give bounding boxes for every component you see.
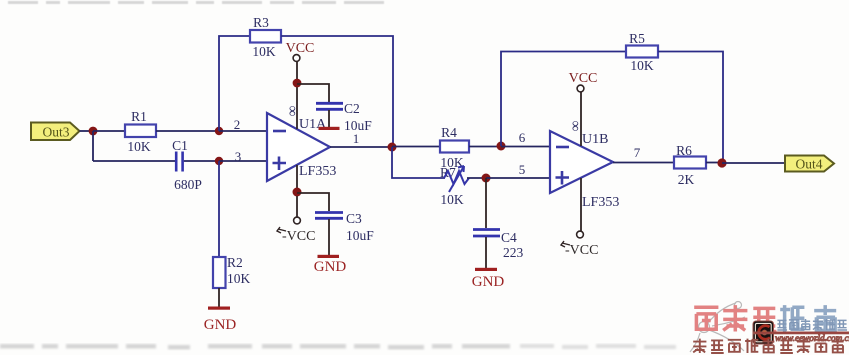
svg-text:3: 3 (235, 149, 242, 164)
potentiometer R7 (440, 165, 469, 207)
wire node G to Out4 (722, 162, 785, 164)
port Out3 (31, 123, 80, 141)
wire node F to pin 5 (486, 177, 550, 179)
svg-text:R4: R4 (441, 125, 457, 140)
port Out4 (785, 156, 834, 172)
watermark text dianzi gongcheng shijie (blue) (777, 319, 847, 330)
node E junction (497, 142, 506, 151)
svg-text:VCC: VCC (286, 41, 315, 56)
wire R4 to node E (469, 146, 501, 148)
node A junction (89, 127, 98, 136)
wire VCC node to C2 (297, 84, 329, 102)
node G junction (717, 158, 726, 167)
svg-text:680P: 680P (174, 177, 202, 192)
ground below R2 (204, 307, 237, 334)
power port VCC (U1B) (569, 71, 598, 92)
node V- junction (293, 188, 302, 197)
watermark logo eeworld (753, 321, 774, 344)
faint cropped text line bottom (0, 344, 676, 350)
svg-text:R6: R6 (676, 143, 692, 158)
svg-text:10K: 10K (252, 44, 276, 59)
wire V- node to -VCC circle (296, 196, 298, 217)
svg-text:10K: 10K (127, 139, 151, 154)
svg-text:GND: GND (204, 317, 237, 333)
svg-text:LF353: LF353 (299, 164, 336, 179)
wire node D down to pot row (392, 147, 445, 178)
power port -VCC (U1A) (277, 217, 315, 244)
svg-text:GND: GND (472, 274, 505, 290)
wire C2 to ground bar (328, 110, 330, 127)
capacitor C3 (315, 211, 374, 243)
wire C1 to node C (184, 160, 219, 162)
watermark big text pei xun (blue) (780, 305, 836, 331)
svg-text:GND: GND (314, 259, 347, 275)
ground bar below C2 (319, 127, 340, 130)
node VCC junction (293, 79, 302, 88)
resistor R6 (674, 143, 706, 187)
resistor R2 (213, 255, 251, 288)
wire U1A V- down (296, 165, 298, 192)
node F junction (482, 174, 491, 183)
wire node A to R1 (93, 130, 125, 132)
svg-text:R3: R3 (253, 15, 269, 30)
wire Out3 to node A (80, 130, 94, 132)
capacitor C2 (316, 101, 372, 133)
wire node F to C4 (485, 178, 487, 228)
wire R3 feedback riser (219, 36, 250, 131)
node D junction (U1A out) (388, 143, 397, 152)
resistor R3 (250, 15, 281, 59)
svg-text:U1B: U1B (582, 132, 608, 147)
svg-text:5: 5 (519, 162, 526, 177)
svg-text:Out3: Out3 (43, 125, 70, 140)
svg-text:-VCC: -VCC (282, 229, 315, 244)
wire U1B output pin 7 (613, 162, 674, 164)
wire R2 to ground (218, 288, 220, 307)
svg-text:10K: 10K (227, 271, 251, 286)
svg-text:R2: R2 (227, 255, 243, 270)
power port VCC (U1A) (286, 41, 315, 61)
resistor R4 (440, 125, 469, 170)
wire U1B V- to -VCC (580, 178, 582, 231)
ground below C3 (314, 255, 347, 275)
svg-text:C2: C2 (344, 101, 360, 116)
wire R3 to output node (281, 36, 393, 147)
svg-text:C4: C4 (501, 230, 517, 245)
node C junction (215, 157, 223, 165)
svg-text:C3: C3 (346, 211, 362, 226)
svg-text:10K: 10K (440, 192, 464, 207)
wire R6 to node G (706, 162, 722, 164)
svg-text:LF353: LF353 (582, 195, 619, 210)
resistor R5 (626, 31, 658, 73)
wire U1A V+ to VCC (296, 61, 298, 129)
wire R5 to output node (658, 52, 723, 164)
resistor R1 (125, 109, 156, 154)
wire node D to R4 (392, 146, 440, 148)
svg-text:223: 223 (503, 245, 524, 260)
svg-text:10uF: 10uF (346, 228, 374, 243)
svg-text:1: 1 (353, 131, 360, 146)
watermark bottom red slogan (693, 319, 849, 353)
svg-text:VCC: VCC (569, 71, 598, 86)
svg-text:R5: R5 (629, 31, 645, 46)
faint cropped text line top (8, 1, 384, 4)
power port -VCC (U1B) (561, 231, 598, 258)
svg-text:2K: 2K (678, 172, 695, 187)
wire node C to pin 3 (219, 160, 267, 162)
wire node E to pin 6 (501, 146, 550, 148)
svg-text:10K: 10K (630, 58, 654, 73)
svg-text:2: 2 (234, 117, 241, 132)
watermark big text yi di tuo (pink) (694, 305, 776, 331)
svg-text:Out4: Out4 (796, 157, 823, 172)
wire R1 to node B (156, 130, 219, 132)
svg-text:6: 6 (519, 130, 526, 145)
wire C3 to ground (328, 219, 330, 255)
wire node A down (92, 131, 94, 161)
wire node B to pin 2 (219, 130, 267, 132)
svg-text:-VCC: -VCC (565, 243, 598, 258)
wire R5 riser (501, 52, 626, 147)
watermark sketch figure (690, 302, 745, 353)
svg-text:7: 7 (634, 145, 641, 160)
ground below C4 (472, 268, 505, 290)
capacitor C4 (473, 230, 524, 261)
wire U1A output pin 1 (330, 146, 392, 148)
wire pot to node F (467, 177, 486, 179)
wire V- node to C3 (297, 193, 329, 211)
svg-text:R1: R1 (131, 109, 147, 124)
wire C4 to ground (485, 237, 487, 268)
svg-text:C1: C1 (172, 138, 188, 153)
wire node C to R2 (218, 161, 220, 257)
watermark red underline (754, 332, 849, 334)
node B junction (215, 127, 223, 135)
wire U1B V+ to VCC (580, 92, 582, 146)
op-amp U1B (550, 121, 619, 210)
op-amp U1A (267, 106, 336, 181)
capacitor C1 (172, 138, 202, 192)
wire node A to C1 (93, 160, 175, 162)
